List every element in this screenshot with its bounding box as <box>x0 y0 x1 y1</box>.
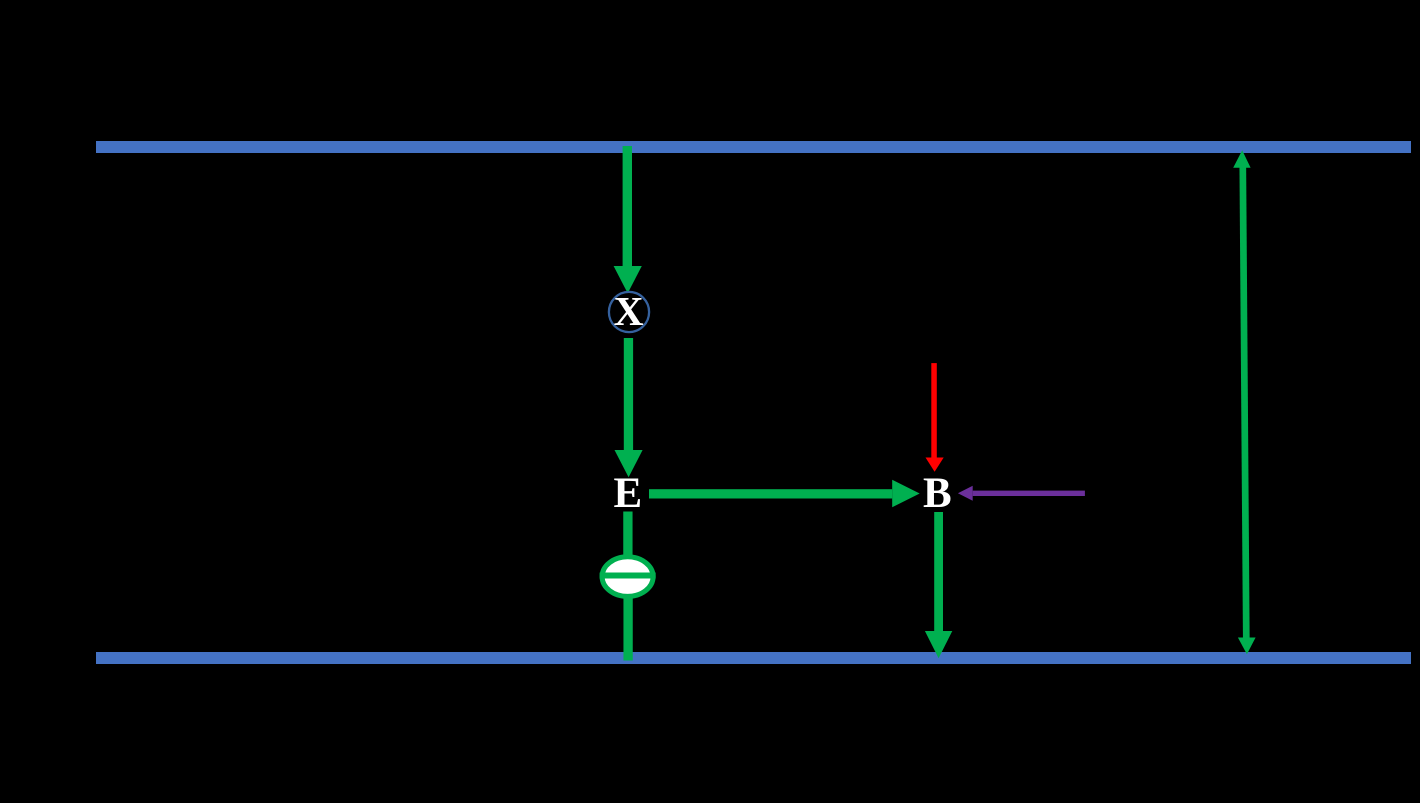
red arrow pointing down to B <box>926 363 944 472</box>
green arrow from B down to bottom plate <box>925 512 952 658</box>
green arrow from X symbol down to E label <box>615 338 643 477</box>
double-headed green arrow between plates <box>1233 150 1255 654</box>
svg-text:X: X <box>614 288 644 334</box>
svg-text:B: B <box>923 470 952 517</box>
negative charge symbol (minus bar) <box>600 573 656 579</box>
green arrow from E to B <box>649 480 920 508</box>
bottom plate <box>96 652 1411 664</box>
field-into-page symbol X (circle) <box>609 292 649 332</box>
green arrow from top plate down to X symbol <box>614 146 642 293</box>
svg-text:E: E <box>614 470 643 517</box>
negative charge symbol (circle) <box>602 557 653 597</box>
wire from charge symbol down to bottom plate <box>623 598 632 661</box>
wire from E down to charge symbol <box>623 512 632 558</box>
purple arrow pointing left to B <box>958 486 1085 501</box>
top plate <box>96 141 1411 153</box>
